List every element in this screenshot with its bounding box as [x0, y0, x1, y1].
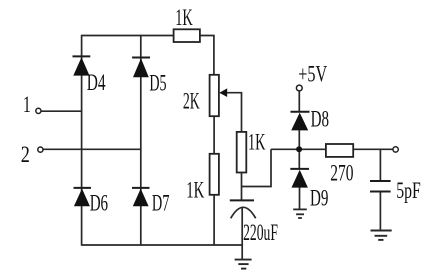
svg-text:2: 2 [21, 142, 30, 167]
svg-text:270: 270 [330, 161, 353, 186]
potentiometer 2K box [210, 75, 219, 116]
capacitor 5pF plates [370, 181, 391, 192]
svg-text:D8: D8 [311, 107, 329, 132]
wire 5pF capacitor to ground [379, 192, 381, 231]
svg-text:D5: D5 [149, 70, 166, 95]
svg-text:D4: D4 [87, 70, 106, 95]
svg-text:D7: D7 [152, 191, 170, 216]
capacitor 220uF top plate [230, 199, 254, 201]
node junction dot D8/D9/270 [296, 146, 302, 152]
wire 1K R3 to bottom rail [213, 195, 215, 245]
wire right bridge column (D5/D7) [140, 35, 142, 246]
wire +5V lead [298, 91, 300, 112]
terminal 2 circle [38, 147, 43, 152]
wire 2K pot to 1K R3 [213, 116, 215, 154]
+5V supply circle [296, 85, 302, 91]
ground under 220uF [235, 260, 252, 269]
output terminal circle [393, 147, 398, 152]
svg-text:1K: 1K [175, 5, 193, 30]
terminal 1 circle [36, 108, 41, 113]
diode D7 [132, 188, 150, 206]
wire D9 to ground [299, 187, 301, 209]
ground under D9 [293, 209, 307, 218]
svg-text:220uF: 220uF [243, 220, 278, 245]
svg-text:D6: D6 [90, 191, 108, 216]
wire output to 5pF capacitor [379, 149, 381, 181]
wire D8 to junction [298, 130, 300, 149]
diode D9 [290, 169, 309, 188]
capacitor 220uF curved plate [231, 207, 256, 218]
svg-text:1: 1 [23, 92, 31, 117]
svg-text:+5V: +5V [298, 61, 327, 86]
wire terminal 1 to bridge [41, 110, 81, 112]
svg-text:D9: D9 [310, 186, 328, 211]
svg-text:5pF: 5pF [396, 178, 421, 203]
wire wiper tail down to 1K R2 [227, 93, 242, 132]
wire bottom rail [82, 244, 243, 246]
wire junction row left [271, 148, 326, 150]
wire left bridge column (D4/D6) [81, 35, 83, 246]
wire top rail [82, 35, 174, 37]
svg-text:1K: 1K [186, 177, 204, 202]
wire 220uF capacitor lead to ground [241, 208, 243, 260]
wire junction row right to output [353, 148, 393, 150]
wire 1K R1 to 2K pot corner [200, 36, 214, 75]
diode D4 [73, 56, 91, 75]
potentiometer wiper arrow [219, 88, 227, 97]
diode D6 [74, 188, 92, 206]
svg-text:2K: 2K [183, 89, 200, 114]
wire terminal 2 to bridge [43, 148, 141, 150]
resistor R3 1K vertical box (left leg) [210, 154, 219, 195]
diode D5 [132, 58, 150, 78]
wire 1K R2 lead down to capacitor plate [241, 173, 243, 201]
diode D8 [291, 112, 310, 131]
resistor 270 horizontal box [326, 144, 353, 157]
wire branch from cap node up to diode junction [242, 149, 272, 186]
svg-text:1K: 1K [248, 129, 266, 154]
ground under 5pF [371, 231, 392, 240]
wire junction to D9 [298, 149, 300, 169]
resistor R2 1K vertical box (wiper leg) [237, 132, 247, 173]
resistor R1 1K horizontal box [174, 29, 200, 42]
